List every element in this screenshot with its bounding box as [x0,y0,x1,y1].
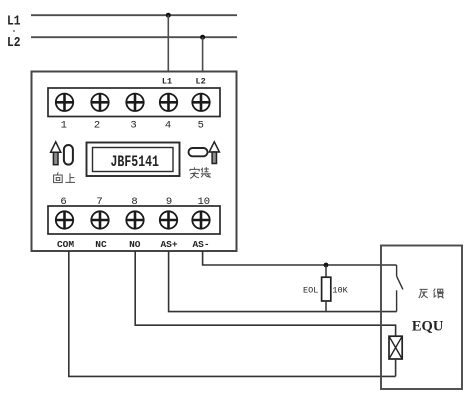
svg-text:L1: L1 [7,15,21,30]
install arrow icon [209,142,219,164]
terminal 8 [126,211,143,228]
wire COM to load bottom [69,251,396,376]
terminal 2 [91,94,108,111]
EQU equipment box [381,246,462,390]
label 安装 (glyph 安) [190,167,199,178]
O button icon [64,145,73,165]
svg-text:L1: L1 [162,77,172,87]
terminal 10 [192,211,209,228]
display window [87,143,180,177]
svg-text:JBF5141: JBF5141 [111,153,160,171]
module U1 JBF5141 outline [32,72,237,252]
wire L1 drop to terminal 4 [167,15,169,71]
resistor EOL 10K [322,265,331,312]
wire L1 bus [31,14,237,16]
load device (crossed box) [389,336,402,359]
junction on L1 [166,13,171,18]
svg-text:4: 4 [165,120,171,132]
stray dot above L2 [13,30,15,32]
svg-text:EQU: EQU [412,319,444,335]
wire AS+ return [169,251,397,312]
install oval icon [189,148,208,156]
svg-text:NO: NO [129,239,141,250]
terminal 9 [160,211,177,228]
svg-text:L2: L2 [7,36,21,51]
svg-text:EOL: EOL [303,285,318,295]
terminal 6 [56,211,73,228]
terminal 7 [91,211,108,228]
svg-text:5: 5 [198,120,204,132]
up-arrow icon (向上 button) [51,142,61,165]
terminal 4 [160,94,177,111]
svg-text:3: 3 [130,120,136,132]
svg-text:1: 1 [61,120,67,132]
junction on L2 [200,35,205,40]
feedback switch contact [397,265,403,312]
svg-text:10K: 10K [332,285,348,295]
svg-text:COM: COM [57,239,74,250]
terminal 1 [56,94,73,111]
wire load bottom to COM run [395,359,397,376]
svg-text:AS+: AS+ [160,239,177,250]
svg-text:NC: NC [95,239,107,250]
svg-text:2: 2 [94,120,100,132]
wire L2 drop to terminal 5 [202,37,204,71]
label 反馈 (glyph 馈) [434,289,444,299]
svg-text:AS-: AS- [192,239,209,250]
terminal strip bottom [48,206,220,234]
label 向上 (glyph 向) [54,172,63,182]
junction at EOL resistor [324,263,329,268]
wire L2 bus [31,36,237,38]
terminal strip top [48,88,220,117]
label 向上 (glyph 上) [65,173,75,182]
wire NO to load top [135,251,395,336]
svg-text:L2: L2 [195,77,205,87]
label 安装 (glyph 装) [201,167,211,177]
terminal 3 [126,94,143,111]
wire AS- feed [203,251,397,265]
label 反馈 (glyph 反) [419,289,428,298]
terminal 5 [192,94,209,111]
